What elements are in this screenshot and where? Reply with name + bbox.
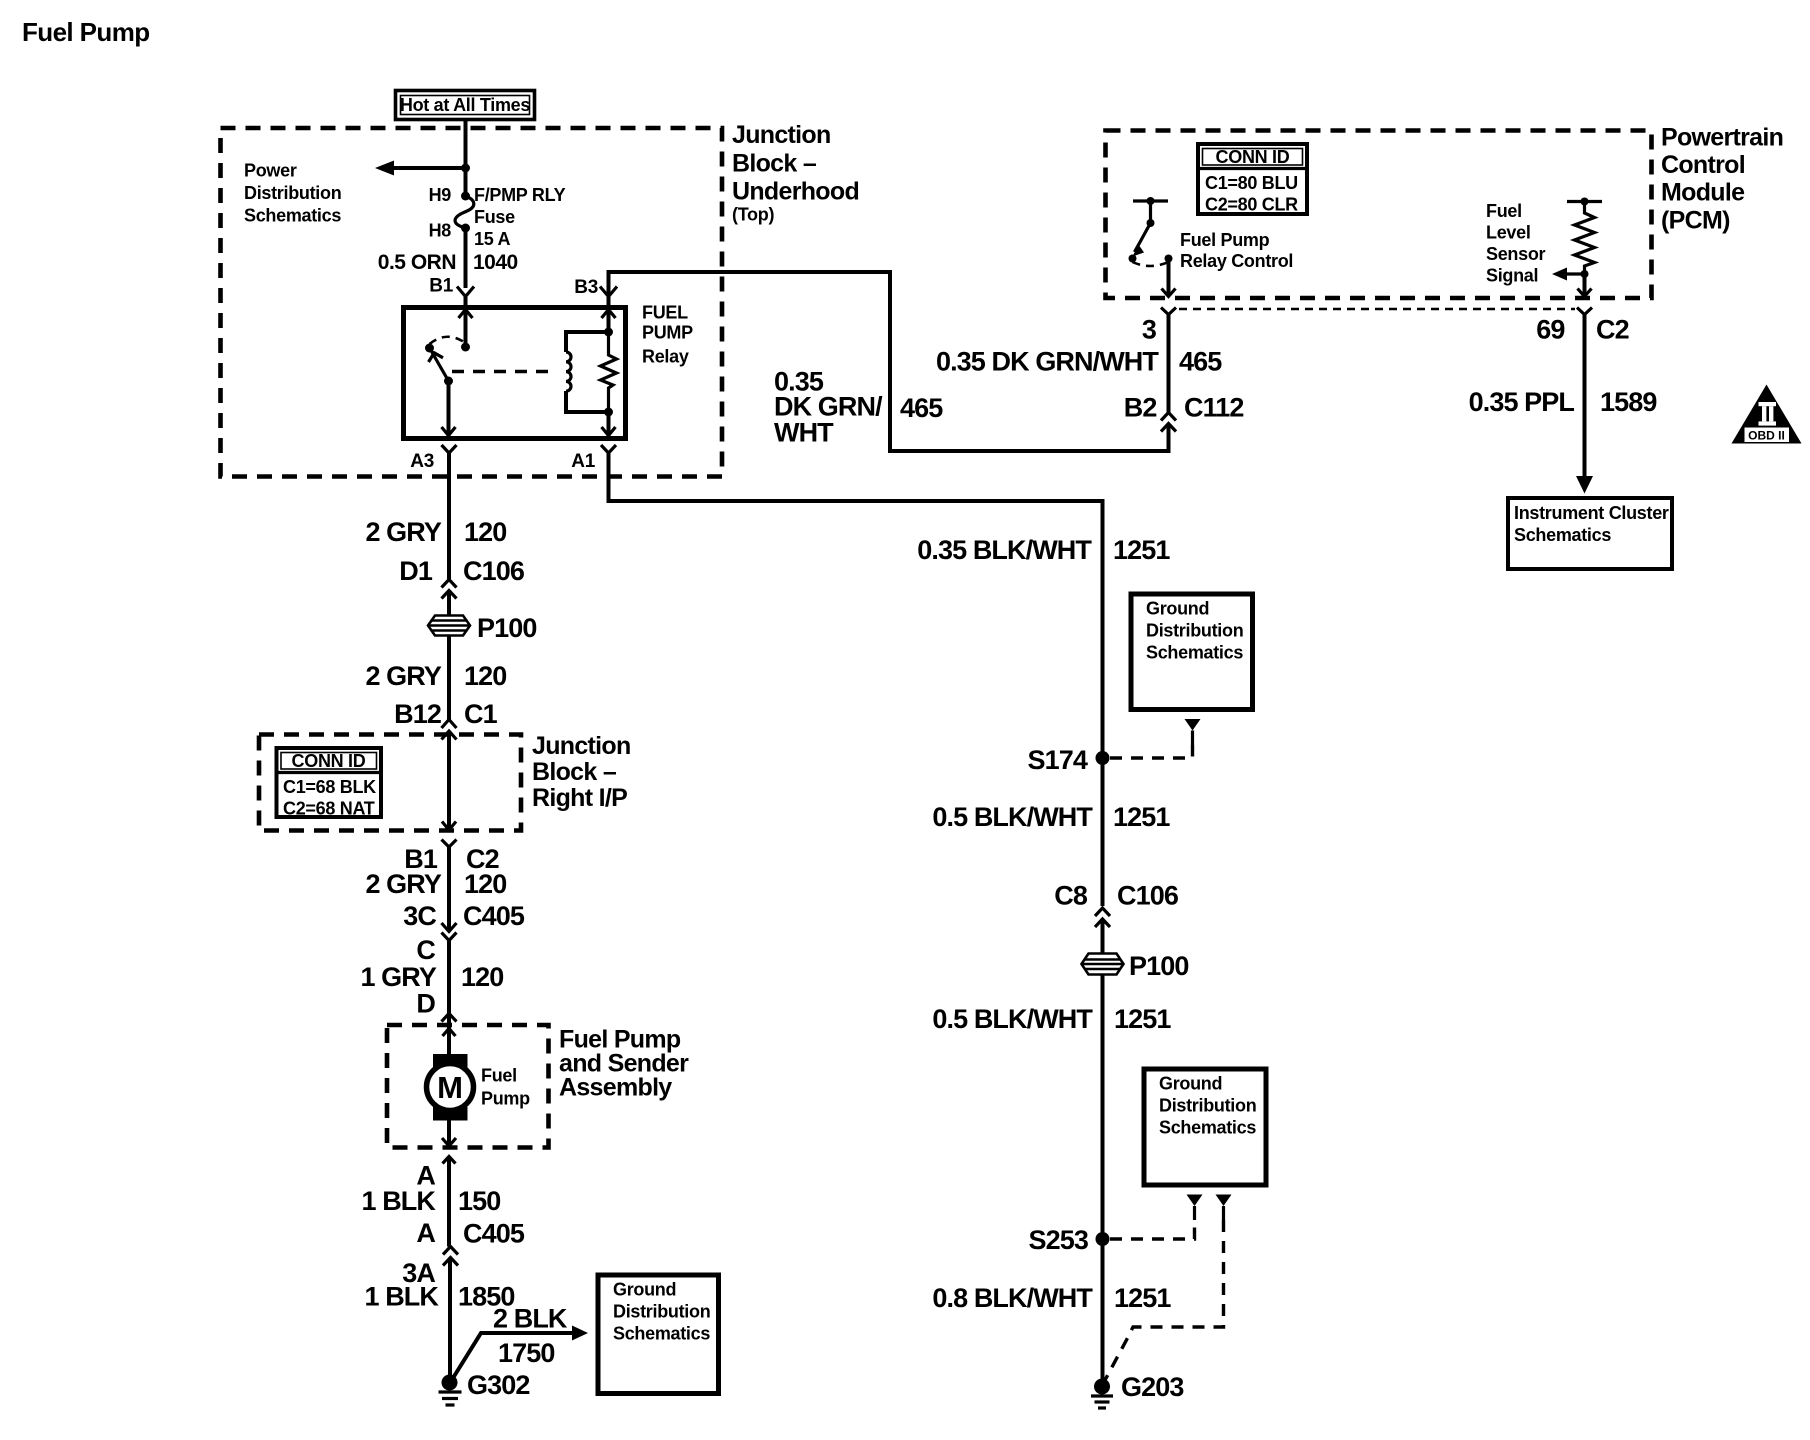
svg-text:Powertrain: Powertrain (1661, 124, 1783, 152)
relay resistor (601, 332, 617, 412)
svg-text:C2=80 CLR: C2=80 CLR (1205, 195, 1298, 215)
svg-text:1040: 1040 (473, 251, 518, 274)
node coil bottom (604, 408, 613, 417)
svg-text:Fuel Pump: Fuel Pump (1180, 230, 1270, 250)
svg-text:C1: C1 (464, 699, 498, 729)
svg-text:Fuel: Fuel (1486, 201, 1522, 221)
svg-text:120: 120 (464, 869, 506, 899)
svg-text:1251: 1251 (1113, 802, 1170, 832)
svg-text:0.5 BLK/WHT: 0.5 BLK/WHT (932, 1004, 1093, 1034)
connector terminal B1 (female Y) (457, 287, 474, 297)
svg-text:C112: C112 (1184, 393, 1243, 423)
svg-text:Instrument Cluster: Instrument Cluster (1514, 503, 1669, 523)
svg-text:B1: B1 (429, 276, 453, 297)
grommet P100 (middle) (1082, 954, 1124, 975)
wire C106 to P100 (447, 591, 451, 618)
svg-text:15 A: 15 A (474, 229, 510, 249)
label FUEL PUMP Relay (642, 303, 693, 367)
wire A1 to ground chain 0.35 BLK/WHT (609, 453, 1103, 906)
svg-text:Junction: Junction (732, 121, 831, 149)
arrow from box 2 to G203 (1216, 1195, 1232, 1221)
fuel level sensor resistor in PCM (1567, 198, 1602, 275)
svg-text:2 GRY: 2 GRY (365, 517, 441, 547)
svg-text:Distribution: Distribution (613, 1302, 710, 1322)
svg-text:150: 150 (458, 1186, 500, 1216)
svg-text:Schematics: Schematics (1146, 643, 1243, 663)
svg-text:Distribution: Distribution (1146, 621, 1243, 641)
label 0.35 DK GRN/ WHT 465 (3 lines) (774, 367, 943, 448)
arrow up into relay at B1 (459, 310, 473, 319)
splice S253 (1096, 1232, 1110, 1246)
svg-text:Fuel: Fuel (481, 1066, 517, 1086)
wire coil bottom to A1 (607, 412, 611, 436)
svg-text:C: C (416, 935, 435, 965)
connector B12/C1 chevron and arrow (442, 720, 457, 740)
wire relay switch to A3 (447, 381, 451, 436)
svg-text:1 GRY: 1 GRY (360, 962, 436, 992)
svg-text:1251: 1251 (1114, 1004, 1171, 1034)
svg-text:Level: Level (1486, 223, 1531, 243)
fuse F/PMP RLY 15 A (455, 192, 474, 233)
svg-text:Ground: Ground (1159, 1074, 1222, 1094)
svg-text:2 GRY: 2 GRY (365, 869, 441, 899)
svg-text:C405: C405 (463, 901, 525, 931)
svg-text:0.5 ORN: 0.5 ORN (378, 251, 456, 274)
PCM driver switch (fuel pump relay control) (1129, 197, 1173, 266)
arrow down inside relay at A3 (442, 427, 456, 436)
junction block right I/P dashed box (259, 735, 521, 831)
wire 0.5 ORN 1040 from fuse to relay B1 (464, 228, 468, 288)
svg-text:Power: Power (244, 161, 297, 181)
svg-text:M: M (437, 1070, 463, 1105)
svg-text:C1=68 BLK: C1=68 BLK (283, 777, 376, 797)
svg-text:120: 120 (464, 517, 506, 547)
label Powertrain Control Module (PCM) (1661, 124, 1783, 235)
connector terminal A1 (female Y) (601, 445, 616, 453)
Instrument Cluster Schematics box (1508, 498, 1672, 569)
splice S174 (1096, 751, 1110, 765)
svg-text:A: A (416, 1218, 435, 1248)
label Junction Block - Right I/P (532, 732, 631, 812)
CONN ID box C1=80 BLU C2=80 CLR (1198, 144, 1307, 215)
svg-text:3C: 3C (403, 901, 436, 931)
wire P100 to S253 to G203 (1101, 975, 1105, 1387)
connector below box (female Y) (442, 840, 457, 848)
svg-text:2 GRY: 2 GRY (365, 661, 441, 691)
wire switch to pin 3 with down arrow (1162, 259, 1176, 297)
svg-text:0.5 BLK/WHT: 0.5 BLK/WHT (932, 802, 1093, 832)
svg-text:C405: C405 (463, 1219, 525, 1249)
svg-text:69: 69 (1536, 315, 1565, 345)
wire to C405 (447, 1157, 451, 1247)
svg-text:G302: G302 (467, 1370, 529, 1400)
svg-text:Junction: Junction (532, 732, 631, 760)
svg-text:C106: C106 (1117, 881, 1179, 911)
svg-text:1750: 1750 (498, 1338, 554, 1368)
arrow to Power Distribution Schematics (375, 161, 466, 176)
label Fuel Pump (motor) (481, 1066, 530, 1109)
connector face dashed line C2 (1179, 308, 1575, 311)
svg-text:2 BLK: 2 BLK (493, 1304, 568, 1334)
label Fuel Pump Relay Control (1180, 230, 1293, 271)
connector C8/C106 chevron and arrow (1095, 908, 1110, 927)
svg-text:Schematics: Schematics (244, 206, 341, 226)
svg-text:1589: 1589 (1600, 387, 1657, 417)
svg-text:Schematics: Schematics (613, 1324, 710, 1344)
svg-text:A3: A3 (410, 451, 434, 472)
wire A3 down 2 GRY 120 (447, 453, 451, 579)
arrow up into fuel pump box (443, 1029, 456, 1037)
CONN ID box C1=68 BLK C2=68 NAT (277, 748, 382, 819)
svg-text:Relay: Relay (642, 347, 689, 367)
wire motor to box bottom with down arrow (442, 1121, 456, 1147)
wire 2 BLK 1750 to ground distribution box (453, 1326, 588, 1379)
connector pin 69 (female Y) (1577, 308, 1592, 315)
svg-text:C1=80 BLU: C1=80 BLU (1205, 173, 1298, 193)
svg-text:B3: B3 (574, 277, 598, 298)
wire C405 to fuel pump box (447, 941, 451, 1055)
svg-text:Assembly: Assembly (559, 1074, 672, 1102)
svg-text:1 BLK: 1 BLK (361, 1186, 436, 1216)
ground G203 (1091, 1379, 1113, 1409)
label Fuel Pump and Sender Assembly (559, 1026, 689, 1102)
wire P100 to C1 (447, 636, 451, 720)
connector below fuel pump box (female Y down) (443, 1157, 456, 1164)
relay actuation dashed link (452, 370, 552, 373)
wire B3 to PCM pin 3 and C112 (609, 272, 1169, 451)
svg-text:S174: S174 (1028, 745, 1088, 775)
label F/PMP RLY Fuse 15 A (474, 185, 566, 249)
svg-text:1251: 1251 (1113, 535, 1170, 565)
arrow from box 1 to S174 (1185, 719, 1201, 745)
relay coil (566, 332, 609, 412)
svg-text:FUEL: FUEL (642, 303, 688, 323)
Hot at All Times power tag box (396, 91, 535, 120)
connector C112 chevron and arrow (1161, 413, 1176, 432)
svg-text:S253: S253 (1029, 1225, 1089, 1255)
svg-text:Ground: Ground (1146, 599, 1209, 619)
svg-text:B12: B12 (394, 699, 441, 729)
svg-text:D: D (416, 989, 435, 1019)
svg-text:Fuel Pump: Fuel Pump (22, 17, 150, 47)
svg-text:CONN ID: CONN ID (292, 751, 366, 771)
svg-text:G203: G203 (1121, 1372, 1184, 1402)
wire from Hot at All Times down to fuse (464, 118, 468, 196)
svg-text:C8: C8 (1054, 881, 1088, 911)
label Junction Block - Underhood (Top) (732, 121, 859, 225)
svg-text:Control: Control (1661, 151, 1745, 179)
wire sensor to pin 69 with down arrow (1578, 274, 1592, 297)
svg-text:Distribution: Distribution (244, 183, 341, 203)
connector A/C405 chevron and arrow (443, 1247, 458, 1266)
svg-text:F/PMP RLY: F/PMP RLY (474, 185, 566, 205)
arrow down inside relay at A1 (602, 427, 616, 436)
arrow fuel level sensor signal (1552, 268, 1589, 281)
svg-text:P100: P100 (477, 613, 536, 643)
svg-text:Block –: Block – (532, 758, 617, 786)
svg-text:OBD II: OBD II (1748, 429, 1785, 443)
dashed link S174 (1110, 745, 1193, 758)
svg-text:120: 120 (464, 661, 506, 691)
node coil top (604, 328, 613, 337)
svg-text:(PCM): (PCM) (1661, 207, 1730, 235)
connector D1/C106 chevron and arrow (442, 580, 457, 599)
svg-text:465: 465 (1179, 347, 1222, 377)
svg-text:Module: Module (1661, 179, 1745, 207)
svg-text:1 BLK: 1 BLK (364, 1282, 439, 1312)
connector terminal B3 (female Y) (600, 287, 617, 297)
arrow up into relay at B3 (602, 310, 616, 319)
OBD II symbol (1732, 385, 1802, 444)
label Fuel Level Sensor Signal (1486, 201, 1546, 286)
junction block underhood dashed box (221, 128, 723, 477)
svg-text:0.35 BLK/WHT: 0.35 BLK/WHT (917, 535, 1092, 565)
wire C112 to pin 3 (1167, 315, 1171, 413)
connector pin 3 (female Y) (1161, 308, 1176, 315)
svg-text:H8: H8 (429, 221, 452, 241)
Ground Distribution Schematics box 1 (1131, 594, 1253, 710)
arrow from box 2 to S253 (1187, 1195, 1203, 1221)
svg-text:Block –: Block – (732, 150, 817, 178)
svg-text:Schematics: Schematics (1514, 525, 1611, 545)
svg-text:P100: P100 (1129, 951, 1188, 981)
svg-text:0.35 PPL: 0.35 PPL (1469, 387, 1575, 417)
svg-text:PUMP: PUMP (642, 323, 693, 343)
fuel pump and sender assembly dashed box (387, 1025, 549, 1148)
connector D chevron (442, 1014, 457, 1022)
Ground Distribution Schematics box 3 (598, 1275, 719, 1394)
wire to C405 (447, 847, 451, 931)
Ground Distribution Schematics box 2 (1144, 1069, 1266, 1185)
dashed link S253 (1110, 1220, 1195, 1239)
svg-text:Schematics: Schematics (1159, 1118, 1256, 1138)
svg-text:D1: D1 (399, 556, 433, 586)
svg-text:A1: A1 (571, 451, 595, 472)
svg-text:Underhood: Underhood (732, 178, 859, 206)
svg-text:B2: B2 (1124, 393, 1157, 423)
svg-text:(Top): (Top) (732, 205, 774, 225)
motor M fuel pump (427, 1054, 474, 1121)
ground G302 (439, 1375, 462, 1406)
svg-text:1251: 1251 (1114, 1283, 1171, 1313)
svg-text:Pump: Pump (481, 1089, 530, 1109)
svg-text:Distribution: Distribution (1159, 1096, 1256, 1116)
svg-text:0.8 BLK/WHT: 0.8 BLK/WHT (932, 1283, 1093, 1313)
svg-text:465: 465 (900, 393, 943, 423)
svg-text:Hot at All Times: Hot at All Times (400, 95, 531, 115)
relay FUEL PUMP Relay box (404, 308, 626, 439)
svg-text:Relay Control: Relay Control (1180, 251, 1293, 271)
svg-text:C2=68 NAT: C2=68 NAT (283, 799, 375, 819)
svg-text:C106: C106 (463, 556, 525, 586)
svg-text:H9: H9 (429, 185, 452, 205)
connector 3C/C405 arrow and chevron (442, 923, 457, 941)
svg-text:WHT: WHT (774, 418, 834, 448)
svg-text:Sensor: Sensor (1486, 244, 1546, 264)
svg-text:120: 120 (461, 962, 503, 992)
wire 0.35 PPL 1589 to instrument cluster (1576, 315, 1593, 494)
svg-text:Signal: Signal (1486, 266, 1538, 286)
label Power Distribution Schematics (244, 161, 341, 226)
PCM dashed box (1106, 131, 1652, 299)
wire through junction block with down arrow (442, 731, 456, 830)
wire C405 to G302 (448, 1258, 452, 1377)
node junction dot at arrow takeoff (461, 164, 470, 173)
svg-text:Right I/P: Right I/P (532, 784, 627, 812)
wire C106 to P100 (1101, 919, 1105, 954)
svg-text:C2: C2 (1596, 315, 1629, 345)
svg-text:3: 3 (1142, 315, 1157, 345)
svg-text:0.35 DK GRN/WHT: 0.35 DK GRN/WHT (936, 347, 1159, 377)
connector terminal A3 (female Y) (442, 445, 457, 453)
grommet P100 (left) (428, 616, 470, 636)
svg-text:Ground: Ground (613, 1280, 676, 1300)
svg-text:CONN ID: CONN ID (1216, 147, 1290, 167)
svg-text:Fuse: Fuse (474, 207, 515, 227)
dashed link to G203 (1104, 1220, 1224, 1382)
relay switch contacts (425, 337, 470, 386)
